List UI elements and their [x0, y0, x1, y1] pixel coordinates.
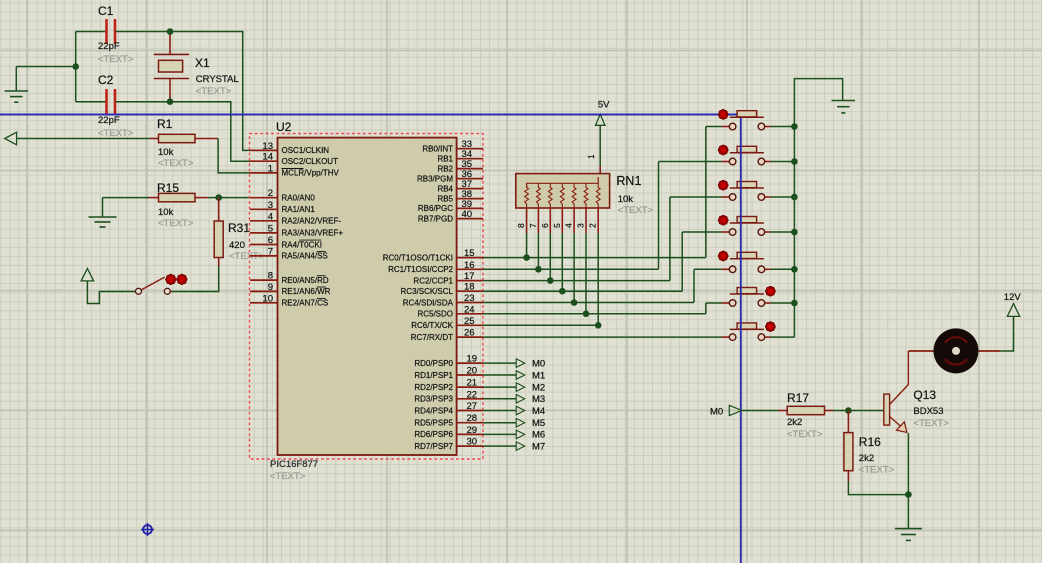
button 7 marker splat — [765, 322, 775, 332]
svg-text:13: 13 — [262, 141, 273, 152]
svg-text:6: 6 — [540, 223, 550, 228]
svg-text:RC7/RX/DT: RC7/RX/DT — [411, 333, 453, 342]
wire: button 7 right to bus — [771, 336, 795, 338]
svg-text:RB6/PGC: RB6/PGC — [418, 204, 453, 213]
chip U2 right pins — [383, 139, 483, 451]
svg-text:RB4: RB4 — [437, 184, 453, 193]
svg-text:RA1/AN1: RA1/AN1 — [282, 205, 316, 214]
power 12V — [1004, 292, 1022, 316]
ground — [5, 67, 29, 103]
svg-text:9: 9 — [268, 282, 273, 293]
transistor Q13 BDX53 — [884, 351, 949, 495]
svg-text:19: 19 — [467, 354, 478, 365]
RN1 labels — [516, 154, 653, 228]
resistor R1 10k — [150, 117, 219, 169]
resistor R31 420 (vertical) — [214, 198, 265, 266]
svg-text:RC1/T1OSI/CCP2: RC1/T1OSI/CCP2 — [388, 265, 453, 274]
svg-text:22pF: 22pF — [98, 41, 120, 52]
wire: button 3 to RC2 — [670, 197, 722, 281]
capacitor C2 — [76, 73, 170, 139]
svg-text:18: 18 — [464, 282, 475, 293]
wire: RC3 row — [483, 288, 682, 295]
resistor R16 2k2 (vertical) — [844, 411, 895, 482]
svg-text:RA0/AN0: RA0/AN0 — [282, 194, 316, 203]
button 3 marker splat — [718, 180, 728, 190]
button 5 marker splat — [718, 251, 728, 261]
ground (top right) — [832, 101, 856, 113]
terminal M1 tag — [483, 370, 545, 381]
origin marker — [141, 523, 154, 536]
svg-text:22pF: 22pF — [98, 115, 120, 126]
svg-text:RB7/PGD: RB7/PGD — [418, 214, 453, 223]
svg-text:RA5/AN4/SS: RA5/AN4/SS — [282, 252, 328, 261]
svg-text:17: 17 — [464, 271, 475, 282]
svg-text:RN1: RN1 — [616, 174, 641, 188]
wire — [17, 138, 150, 140]
wire: RC7 row to button 7 — [483, 336, 722, 338]
svg-text:M7: M7 — [532, 441, 545, 452]
svg-text:2: 2 — [268, 188, 273, 199]
wire: R1 to MCLR pin 1 — [218, 139, 250, 173]
wire: button 2 to RC1 — [659, 162, 722, 270]
terminal M3 tag — [483, 394, 545, 405]
svg-text:14: 14 — [262, 152, 273, 163]
wire: RN1 pin 3 to RC5 — [585, 233, 587, 314]
resistor R15 10k — [149, 181, 208, 229]
svg-text:40: 40 — [462, 209, 473, 220]
power arrow (switch supply) — [81, 268, 136, 303]
svg-text:RB5: RB5 — [437, 194, 453, 203]
svg-text:3: 3 — [576, 223, 586, 228]
wire: RN1 pin 6 to RC2 — [549, 233, 551, 281]
crystal X1 — [154, 28, 239, 105]
svg-text:<TEXT>: <TEXT> — [618, 205, 654, 216]
svg-text:U2: U2 — [276, 120, 292, 134]
svg-text:5V: 5V — [598, 100, 610, 111]
svg-text:RD7/PSP7: RD7/PSP7 — [414, 442, 453, 451]
wire: RC2 row — [483, 277, 670, 284]
chip U2 PIC16F877 body — [270, 120, 457, 482]
svg-text:<TEXT>: <TEXT> — [270, 471, 306, 482]
svg-text:RC6/TX/CK: RC6/TX/CK — [411, 321, 453, 330]
wire: base node — [833, 407, 884, 414]
wire: RN1 pin 2 to RC6 — [597, 233, 599, 325]
resistor R17 2k2 — [778, 391, 833, 440]
wire: RC4 row — [483, 299, 694, 306]
svg-text:RC0/T1OSO/T1CKI: RC0/T1OSO/T1CKI — [383, 253, 453, 262]
svg-text:RD2/PSP2: RD2/PSP2 — [414, 383, 453, 392]
svg-text:10k: 10k — [158, 147, 174, 158]
svg-text:R31: R31 — [228, 221, 250, 235]
svg-text:RD4/PSP4: RD4/PSP4 — [414, 406, 453, 415]
svg-text:RB2: RB2 — [437, 164, 453, 173]
wire: button 5 to RC4 — [694, 269, 722, 302]
wire: RN1 pin 4 to RC4 — [573, 233, 575, 303]
node: C1/C2 left junction — [72, 32, 79, 102]
terminal M6 tag — [483, 430, 545, 441]
svg-text:1: 1 — [586, 154, 596, 159]
svg-text:M5: M5 — [532, 418, 545, 429]
push button 6 — [722, 288, 771, 307]
svg-text:M1: M1 — [532, 370, 545, 381]
chip U2 selection box (dashed) — [250, 134, 484, 460]
terminal M2 tag — [483, 382, 545, 393]
svg-text:10: 10 — [262, 293, 273, 304]
push button 2 — [722, 146, 771, 165]
wire: button 6 to RC5 — [706, 303, 722, 314]
terminal M7 tag — [483, 441, 545, 452]
wire: RN1 pin 5 to RC3 — [561, 233, 563, 291]
svg-text:PIC16F877: PIC16F877 — [270, 459, 318, 470]
push button 5 — [722, 252, 771, 272]
svg-text:Q13: Q13 — [913, 388, 936, 402]
capacitor C1 — [76, 4, 170, 65]
svg-text:2: 2 — [588, 223, 598, 228]
button 1 marker splat — [718, 109, 728, 119]
push button 4 — [722, 217, 771, 236]
svg-text:RD1/PSP1: RD1/PSP1 — [414, 371, 453, 380]
svg-text:10k: 10k — [158, 207, 174, 218]
svg-text:CRYSTAL: CRYSTAL — [196, 74, 239, 85]
svg-text:RC2/CCP1: RC2/CCP1 — [413, 276, 453, 285]
svg-text:8: 8 — [516, 223, 526, 228]
svg-text:<TEXT>: <TEXT> — [196, 86, 232, 97]
svg-text:1: 1 — [268, 163, 273, 174]
svg-text:R17: R17 — [787, 391, 809, 405]
svg-text:OSC2/CLKOUT: OSC2/CLKOUT — [282, 157, 339, 166]
svg-text:7: 7 — [268, 246, 273, 257]
terminal: reset input arrow — [5, 132, 17, 145]
terminal M0 (input tag) — [710, 405, 742, 417]
svg-text:RE2/AN7/CS: RE2/AN7/CS — [282, 299, 329, 308]
svg-text:RD5/PSP5: RD5/PSP5 — [414, 419, 453, 428]
wire: button common bus to ground — [794, 79, 842, 338]
wire: button 4 to RC3 — [682, 232, 721, 291]
svg-text:4: 4 — [268, 211, 273, 222]
svg-text:<TEXT>: <TEXT> — [98, 54, 134, 65]
wire: motor to 12V — [1000, 316, 1014, 351]
wire: button 5 right to bus — [771, 266, 798, 273]
svg-text:M0: M0 — [710, 407, 723, 418]
svg-text:7: 7 — [528, 223, 538, 228]
wire: button 6 right to bus — [771, 300, 798, 307]
svg-text:M0: M0 — [532, 358, 545, 369]
svg-text:M3: M3 — [532, 394, 545, 405]
wire: RC1 row — [483, 266, 659, 273]
button 6 marker splat — [765, 286, 775, 296]
svg-text:MCLR/Vpp/THV: MCLR/Vpp/THV — [282, 169, 340, 178]
terminal M0 tag — [483, 358, 545, 369]
motor (DC motor) — [908, 328, 1000, 373]
svg-text:RC5/SDO: RC5/SDO — [417, 310, 453, 319]
wire: RC6 row — [483, 322, 602, 329]
svg-text:6: 6 — [268, 235, 273, 246]
terminal M5 tag — [483, 418, 545, 429]
button 2 marker splat — [718, 145, 728, 155]
wire: R15 to RA0 pin 2, node junction — [208, 194, 250, 201]
svg-text:5: 5 — [268, 223, 273, 234]
wire — [103, 197, 149, 199]
bus (blue) horizontal — [0, 114, 741, 116]
svg-text:R16: R16 — [859, 435, 881, 449]
svg-text:RD3/PSP3: RD3/PSP3 — [414, 395, 453, 404]
ground (bottom) — [895, 529, 922, 541]
svg-text:10k: 10k — [618, 194, 634, 205]
svg-text:22: 22 — [467, 389, 478, 400]
svg-text:RC3/SCK/SCL: RC3/SCK/SCL — [401, 287, 454, 296]
svg-text:8: 8 — [268, 271, 273, 282]
svg-text:23: 23 — [464, 293, 475, 304]
wire: RN1 pin 7 to RC1 — [537, 233, 539, 269]
svg-text:<TEXT>: <TEXT> — [859, 465, 895, 476]
wire: emitter to ground — [907, 495, 909, 529]
wire: RN1 pin 8 to RC0 — [526, 233, 528, 258]
svg-text:16: 16 — [464, 260, 475, 271]
svg-text:2k2: 2k2 — [787, 417, 802, 428]
svg-text:RB1: RB1 — [437, 155, 453, 164]
wire — [16, 66, 75, 68]
svg-text:20: 20 — [467, 366, 478, 377]
resistor network RN1 10k — [516, 174, 610, 233]
svg-text:12V: 12V — [1004, 292, 1022, 303]
svg-text:24: 24 — [464, 304, 475, 315]
svg-text:X1: X1 — [195, 56, 210, 70]
push button 7 — [722, 323, 771, 341]
svg-text:<TEXT>: <TEXT> — [913, 418, 949, 429]
wire: button 1 right to bus — [771, 123, 798, 130]
svg-text:<TEXT>: <TEXT> — [787, 429, 823, 440]
svg-text:RE0/AN5/RD: RE0/AN5/RD — [282, 276, 329, 285]
button 4 marker splat — [718, 215, 728, 225]
svg-text:28: 28 — [467, 413, 478, 424]
svg-text:RA2/AN2/VREF-: RA2/AN2/VREF- — [282, 217, 342, 226]
wire: button 1 to RC0 — [706, 127, 722, 258]
svg-text:29: 29 — [467, 425, 478, 436]
svg-text:RC4/SDI/SDA: RC4/SDI/SDA — [403, 298, 454, 307]
wire: C1 net to OSC1 pin 13 — [170, 32, 250, 151]
svg-text:<TEXT>: <TEXT> — [158, 218, 194, 229]
svg-text:C1: C1 — [98, 4, 114, 18]
wire: R16 bottom to emitter node — [848, 481, 911, 498]
wire: RC5 row — [483, 311, 706, 318]
switch SW (SPST) — [135, 277, 172, 294]
svg-text:5: 5 — [552, 223, 562, 228]
power 5V — [595, 100, 610, 174]
svg-text:<TEXT>: <TEXT> — [98, 128, 134, 139]
svg-text:2k2: 2k2 — [859, 453, 874, 464]
svg-text:30: 30 — [467, 437, 478, 448]
wire — [742, 410, 779, 412]
svg-text:21: 21 — [467, 378, 478, 389]
wire: button 3 right to bus — [771, 194, 798, 201]
svg-text:OSC1/CLKIN: OSC1/CLKIN — [282, 146, 330, 155]
wire: RC0 row — [483, 254, 706, 261]
chip U2 left pins — [250, 141, 343, 308]
svg-text:RB3/PGM: RB3/PGM — [417, 174, 453, 183]
svg-text:RB0/INT: RB0/INT — [422, 145, 453, 154]
svg-text:M4: M4 — [532, 406, 545, 417]
wire: C2 net to OSC2 pin 14 — [170, 102, 250, 162]
push button 1 cap (over bus) — [737, 111, 757, 117]
svg-text:15: 15 — [464, 248, 475, 259]
push button 3 — [722, 182, 771, 201]
svg-text:BDX53: BDX53 — [913, 406, 943, 417]
bus (blue) vertical — [740, 115, 742, 563]
svg-text:RE1/AN6/WR: RE1/AN6/WR — [282, 287, 331, 296]
wire: button 2 right to bus — [771, 158, 798, 165]
svg-text:RD0/PSP0: RD0/PSP0 — [414, 359, 453, 368]
svg-text:420: 420 — [229, 240, 245, 251]
svg-text:M2: M2 — [532, 382, 545, 393]
svg-text:26: 26 — [464, 328, 475, 339]
svg-text:25: 25 — [464, 316, 475, 327]
terminal M4 tag — [483, 406, 545, 417]
svg-text:M6: M6 — [532, 430, 545, 441]
svg-text:<TEXT>: <TEXT> — [158, 158, 194, 169]
svg-text:4: 4 — [564, 223, 574, 228]
svg-text:C2: C2 — [98, 73, 114, 87]
svg-text:3: 3 — [268, 200, 273, 211]
svg-text:RA4/T0CKI: RA4/T0CKI — [282, 240, 322, 249]
switch state splats — [166, 274, 187, 284]
svg-text:RA3/AN3/VREF+: RA3/AN3/VREF+ — [282, 229, 344, 238]
svg-text:27: 27 — [467, 401, 478, 412]
ground — [89, 198, 117, 227]
svg-text:R1: R1 — [157, 117, 173, 131]
push button 1 — [722, 111, 771, 130]
wire: R31 to switch — [172, 266, 219, 292]
wire: button 4 right to bus — [771, 229, 798, 236]
svg-text:RD6/PSP6: RD6/PSP6 — [414, 430, 453, 439]
svg-text:R15: R15 — [157, 181, 179, 195]
